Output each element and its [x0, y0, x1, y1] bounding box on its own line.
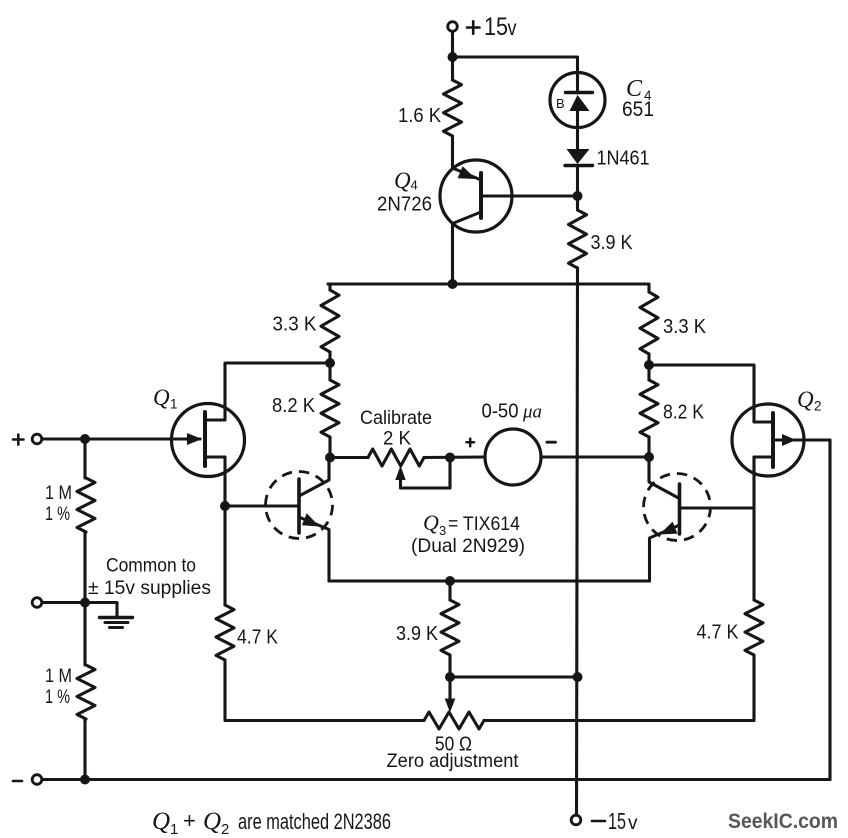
svg-text:Q: Q: [423, 510, 439, 535]
svg-text:8.2 K: 8.2 K: [663, 402, 705, 424]
svg-text:μa: μa: [522, 402, 542, 423]
svg-text:2: 2: [221, 821, 229, 838]
svg-text:4: 4: [411, 178, 418, 193]
svg-text:B: B: [556, 96, 565, 111]
svg-text:Common to: Common to: [106, 555, 196, 577]
svg-text:Q: Q: [394, 168, 411, 193]
svg-text:2 K: 2 K: [383, 429, 411, 450]
svg-text:1: 1: [170, 397, 178, 412]
svg-text:3.3 K: 3.3 K: [273, 314, 318, 336]
svg-text:(Dual 2N929): (Dual 2N929): [411, 535, 525, 557]
svg-text:Q: Q: [152, 808, 170, 835]
svg-text:1 M: 1 M: [45, 665, 72, 687]
svg-text:4.7 K: 4.7 K: [697, 622, 740, 644]
svg-text:1 %: 1 %: [45, 503, 70, 525]
svg-text:1 %: 1 %: [45, 686, 70, 708]
svg-text:1.6 K: 1.6 K: [398, 105, 442, 127]
svg-text:Q: Q: [153, 385, 170, 410]
svg-text:Q: Q: [203, 808, 221, 835]
svg-text:15: 15: [484, 13, 508, 41]
svg-text:v: v: [508, 17, 517, 40]
svg-text:2: 2: [814, 399, 822, 414]
svg-text:± 15v supplies: ± 15v supplies: [88, 577, 211, 599]
svg-text:Calibrate: Calibrate: [360, 408, 432, 429]
svg-text:+: +: [183, 808, 196, 833]
svg-text:Zero adjustment: Zero adjustment: [387, 750, 520, 772]
svg-text:2N726: 2N726: [377, 194, 432, 216]
svg-text:SeekIC.com: SeekIC.com: [728, 810, 838, 833]
svg-text:Q: Q: [797, 387, 814, 412]
svg-text:1N461: 1N461: [597, 148, 650, 170]
svg-text:8.2 K: 8.2 K: [272, 395, 316, 417]
svg-text:1 M: 1 M: [45, 482, 72, 504]
svg-text:= TIX614: = TIX614: [448, 513, 520, 535]
svg-text:651: 651: [622, 98, 654, 121]
svg-text:3.9 K: 3.9 K: [396, 623, 439, 645]
svg-text:15: 15: [608, 808, 626, 834]
svg-text:0-50: 0-50: [482, 401, 519, 423]
svg-text:3.9 K: 3.9 K: [591, 232, 634, 254]
svg-text:v: v: [628, 813, 638, 834]
svg-text:are matched 2N2386: are matched 2N2386: [238, 809, 391, 834]
svg-text:4.7 K: 4.7 K: [237, 627, 279, 649]
svg-text:1: 1: [170, 821, 178, 838]
svg-text:3.3 K: 3.3 K: [663, 316, 707, 338]
